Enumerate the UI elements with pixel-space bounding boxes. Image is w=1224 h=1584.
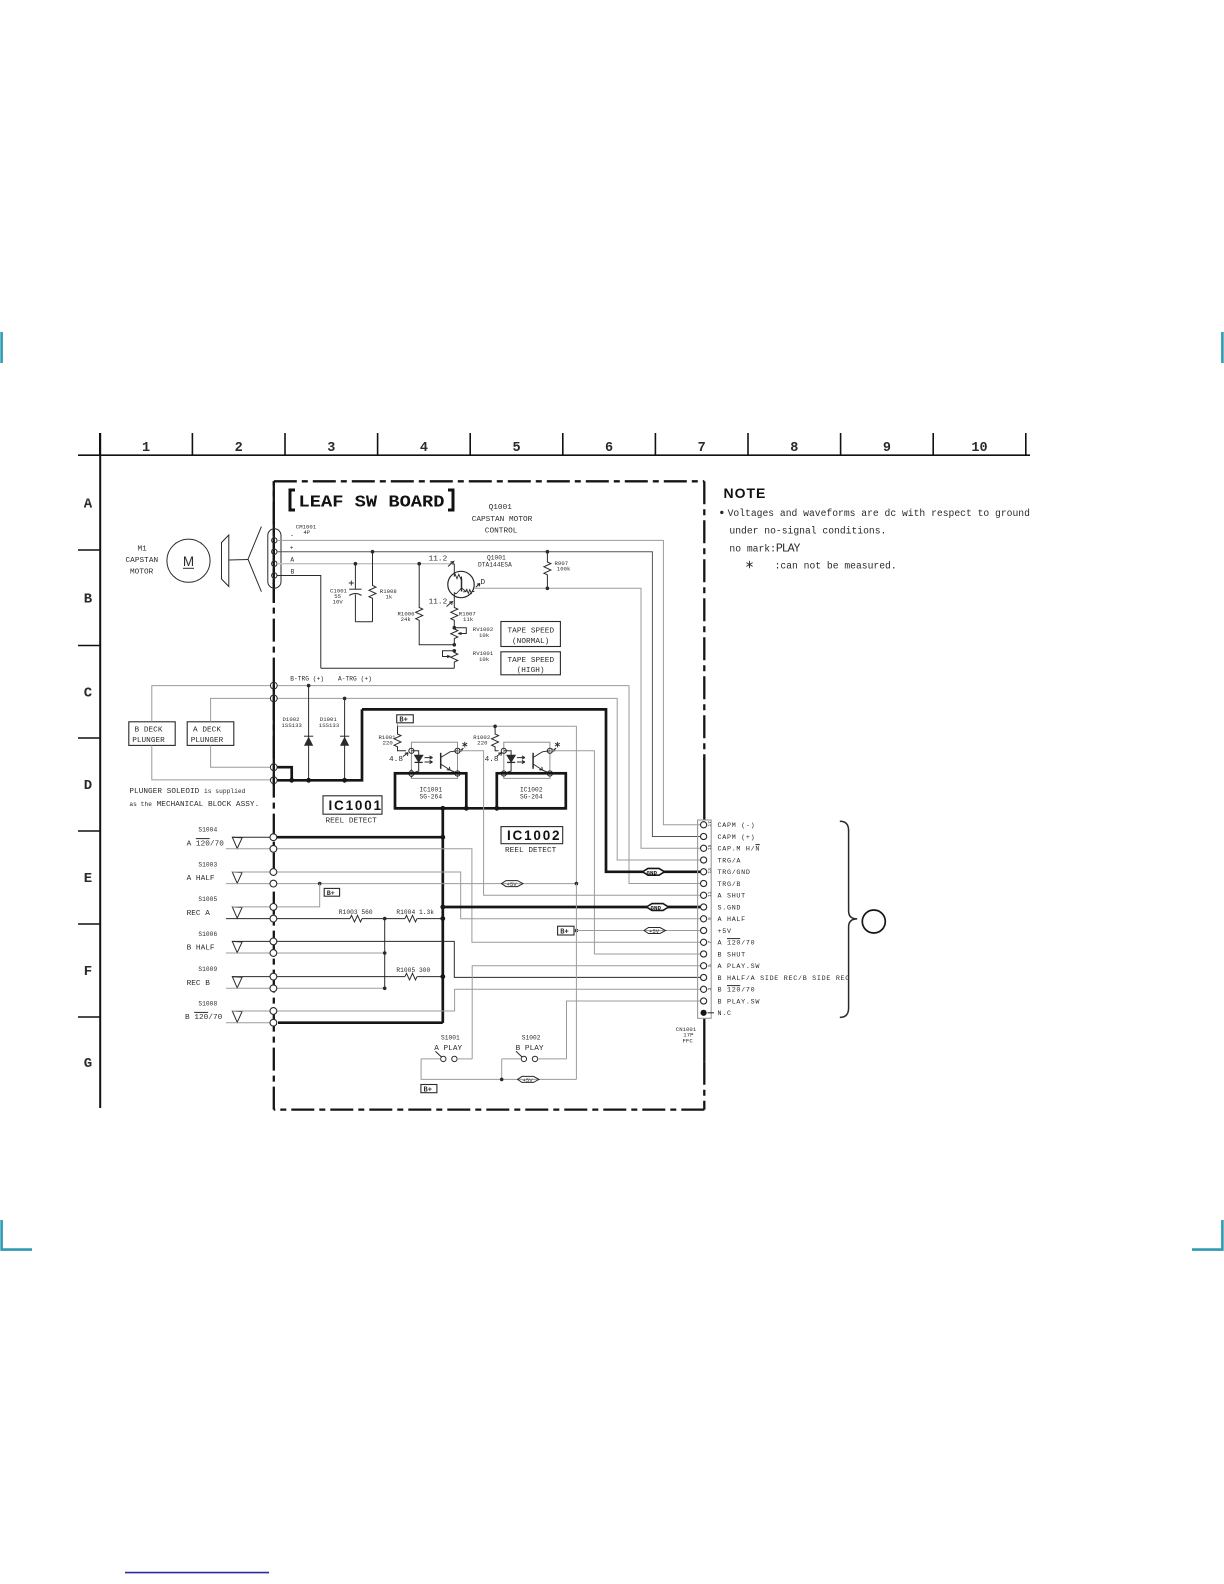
- CM1001 pin circles: [272, 538, 277, 579]
- board border solid segments: [274, 481, 705, 1061]
- svg-text:Voltages and waveforms are dc: Voltages and waveforms are dc with respe…: [728, 508, 1030, 519]
- svg-text:TAPE SPEED: TAPE SPEED: [508, 657, 555, 665]
- node gnd S.GND: [440, 905, 445, 910]
- border node circle A-TRG: [270, 695, 277, 702]
- wire A HALF to pin: [277, 872, 700, 919]
- node R1003/R1004: [383, 917, 387, 921]
- border node circle plunger A: [270, 764, 277, 771]
- svg-text:8: 8: [790, 441, 798, 456]
- diode D1001: [340, 698, 349, 780]
- IC1002 pin2 circle: [501, 771, 506, 776]
- IC1001 LED: [411, 751, 422, 774]
- resistor R1008: [369, 552, 376, 622]
- motor flange: [222, 535, 229, 587]
- node D1002 top: [307, 684, 311, 688]
- grid ruler line: [78, 454, 1030, 456]
- svg-text:R1004 1.3k: R1004 1.3k: [396, 909, 434, 916]
- svg-text:11: 11: [707, 891, 713, 897]
- svg-text:1k: 1k: [386, 594, 393, 601]
- wire B+ vertical lower: [575, 884, 577, 1080]
- wire ground bus: [278, 709, 363, 780]
- IC1001 pin1 circle: [409, 748, 414, 753]
- svg-text:S1008: S1008: [198, 1000, 217, 1007]
- svg-text:MOTOR: MOTOR: [130, 569, 154, 577]
- svg-text:S.GND: S.GND: [718, 904, 742, 912]
- CN1001 pin labels: [718, 822, 851, 1018]
- node bus D1002: [306, 778, 311, 783]
- wire S1006 bottom: [277, 952, 385, 954]
- node C1001 top: [354, 562, 358, 566]
- node link 953: [383, 951, 387, 955]
- svg-text:+5V: +5V: [649, 928, 660, 935]
- svg-text:M1: M1: [138, 546, 148, 554]
- svg-text:B 120/70: B 120/70: [718, 987, 756, 995]
- resistor R907: [544, 552, 551, 589]
- wire REC A / R1003 R1004: [277, 918, 443, 920]
- svg-text:SG-264: SG-264: [420, 793, 443, 800]
- trimmer RV1002: [451, 628, 467, 645]
- svg-text:10k: 10k: [479, 632, 490, 639]
- brace: [840, 821, 857, 1017]
- svg-text:B+: B+: [424, 1086, 432, 1094]
- node +5V pin tap: [575, 929, 579, 933]
- border node circle plunger B: [270, 777, 277, 784]
- wire S.GND row: [443, 906, 701, 909]
- svg-text:under no-signal conditions.: under no-signal conditions.: [729, 526, 886, 537]
- svg-text:A 120/70: A 120/70: [718, 940, 756, 948]
- node RV1002 top: [453, 626, 457, 630]
- svg-text:B+: B+: [327, 890, 335, 898]
- svg-text:CAPM (+): CAPM (+): [718, 834, 756, 842]
- svg-text:Q1001: Q1001: [487, 555, 506, 562]
- grid row letters: [84, 497, 93, 1073]
- arrow 4.8 IC1001: [403, 753, 408, 757]
- svg-text:B HALF/A SIDE REC/B SIDE REC: B HALF/A SIDE REC/B SIDE REC: [718, 975, 851, 983]
- grid ruler ticks: [100, 433, 1026, 455]
- note bullet: [720, 511, 723, 514]
- svg-text:100k: 100k: [557, 566, 571, 573]
- svg-text:+5V: +5V: [507, 881, 518, 888]
- svg-text:(NORMAL): (NORMAL): [512, 638, 549, 646]
- svg-text:-: -: [290, 532, 294, 539]
- wire S1005 to B+ tap: [277, 884, 320, 907]
- svg-text:+: +: [290, 544, 294, 551]
- svg-text:Q1001: Q1001: [489, 504, 513, 512]
- node gnd R1005: [440, 974, 445, 979]
- svg-text:CAP.M H/N: CAP.M H/N: [718, 846, 761, 854]
- wire A 120/70 to pin: [277, 849, 700, 943]
- IC1001 pin3 circle: [455, 771, 460, 776]
- svg-text:REEL DETECT: REEL DETECT: [505, 847, 557, 855]
- wire B+ rail: [398, 723, 577, 884]
- svg-text:2: 2: [235, 441, 243, 456]
- node IC bus drop: [440, 806, 445, 811]
- resistor R1003: [350, 915, 362, 922]
- footer rule: [125, 1572, 269, 1574]
- switch S1001: [421, 1051, 472, 1061]
- svg-text:A HALF: A HALF: [718, 916, 746, 924]
- CN1001 pin circles: [701, 822, 707, 1004]
- resistor R1006: [416, 564, 455, 645]
- svg-text:CONTROL: CONTROL: [485, 527, 518, 535]
- IC1001 case box: [395, 773, 466, 808]
- switch S1004: [226, 837, 270, 849]
- board border dash-dot outline: [274, 481, 705, 1109]
- wire S1009 bottom: [277, 987, 385, 989]
- svg-text:10k: 10k: [479, 656, 490, 663]
- pin label overlines: [727, 845, 760, 986]
- node R1002 top: [493, 725, 497, 729]
- wire B (motor phase): [277, 576, 321, 669]
- svg-text:10: 10: [971, 441, 987, 456]
- svg-text:N.C: N.C: [718, 1010, 732, 1018]
- svg-text:C: C: [84, 686, 93, 702]
- svg-text:B PLAY: B PLAY: [516, 1045, 544, 1053]
- connector CM1001: [268, 529, 281, 588]
- svg-text:DTA144ESA: DTA144ESA: [478, 562, 512, 569]
- svg-text:5: 5: [707, 964, 713, 967]
- svg-text:A 120/70: A 120/70: [187, 840, 225, 848]
- wire B plunger top: [152, 686, 271, 722]
- svg-text:S1004: S1004: [198, 827, 217, 834]
- border node circle B-TRG: [270, 682, 277, 689]
- svg-text:220: 220: [477, 740, 488, 747]
- registration mark bottom-right: [1192, 1220, 1222, 1250]
- node gnd R1004: [440, 916, 445, 921]
- resistor R1004: [405, 915, 417, 922]
- wire A PLAY.SW to pin13: [472, 966, 700, 1059]
- plug bracket: [248, 527, 261, 592]
- switch S1003: [226, 872, 270, 884]
- opto IC1001 body: [411, 742, 457, 778]
- svg-text:A PLAY: A PLAY: [434, 1045, 462, 1053]
- wire A plunger bottom: [211, 745, 271, 767]
- svg-text:S1009: S1009: [198, 966, 217, 973]
- wire CAPM(+): [277, 552, 700, 837]
- svg-text:B SHUT: B SHUT: [718, 951, 746, 959]
- switch S1008: [226, 1011, 270, 1023]
- switch S1006: [226, 941, 270, 953]
- svg-text:NOTE: NOTE: [724, 485, 767, 501]
- switch S1002: [502, 1051, 567, 1061]
- svg-text:(HIGH): (HIGH): [517, 667, 545, 675]
- border circles switches: [270, 834, 277, 1026]
- svg-text:B-TRG (+): B-TRG (+): [290, 676, 324, 683]
- wire S1004 common thick: [277, 836, 443, 839]
- node IC bus 496: [494, 806, 499, 811]
- svg-text:+5V: +5V: [718, 928, 732, 936]
- svg-text:IC1002: IC1002: [507, 828, 561, 843]
- svg-text:B DECK: B DECK: [135, 727, 163, 735]
- svg-text:S1005: S1005: [198, 896, 217, 903]
- node bottom rail: [500, 1078, 504, 1082]
- svg-text:A HALF: A HALF: [187, 875, 215, 883]
- svg-text:B: B: [84, 592, 93, 608]
- B+ box top: [397, 715, 414, 725]
- IC1002 pin4 circle: [547, 748, 552, 753]
- wire S1008 common thick: [278, 1021, 443, 1024]
- svg-text:B PLAY.SW: B PLAY.SW: [718, 998, 761, 1006]
- arrow 11.2 upper: [448, 562, 454, 567]
- IC1001 asterisk: [459, 742, 467, 752]
- B+ box bottom: [421, 1085, 437, 1095]
- wire B-TRG / TRG/B: [277, 686, 700, 884]
- node link 988: [383, 987, 387, 991]
- connector CN1001 body: [698, 820, 712, 1018]
- node B+ vertical join: [575, 882, 579, 886]
- svg-text:REC A: REC A: [187, 910, 211, 918]
- TAPE SPEED NORMAL box: [501, 622, 561, 647]
- svg-text:PLUNGER: PLUNGER: [132, 737, 165, 745]
- flag +5V rail: [502, 881, 524, 888]
- wire CAPM(-): [277, 540, 700, 824]
- wire IC ground bus: [395, 807, 566, 810]
- wire A (motor phase): [277, 563, 454, 565]
- svg-text:+5V: +5V: [523, 1077, 534, 1084]
- wire plunger ground riser: [278, 767, 292, 780]
- grid row ticks: [78, 550, 100, 1017]
- svg-text:SG-264: SG-264: [520, 793, 543, 800]
- svg-text:11.2: 11.2: [429, 599, 448, 607]
- svg-text:24k: 24k: [401, 616, 412, 623]
- wire TRG/GND run: [362, 709, 700, 871]
- grid column numbers: [142, 441, 988, 456]
- svg-text:7: 7: [707, 941, 713, 944]
- svg-text:4.8: 4.8: [389, 756, 403, 764]
- svg-text:220: 220: [383, 740, 394, 747]
- svg-text:TAPE SPEED: TAPE SPEED: [508, 628, 555, 636]
- svg-text:9: 9: [707, 917, 713, 920]
- svg-text:B+: B+: [560, 928, 568, 936]
- motor lead: [229, 559, 248, 562]
- svg-text:10V: 10V: [333, 599, 344, 606]
- trimmer RV1001: [443, 651, 458, 669]
- node R907 top: [546, 550, 550, 554]
- GND flag TRG/GND: [643, 868, 665, 876]
- svg-text:TRG/GND: TRG/GND: [718, 869, 751, 877]
- wire B 120/70 to pin15: [277, 989, 700, 1011]
- wire link 384: [384, 919, 386, 989]
- node R907 bottom: [546, 587, 550, 591]
- CN1001 pin17 N.C dot: [701, 1010, 707, 1016]
- svg-text:7: 7: [698, 441, 706, 456]
- svg-text:B 120/70: B 120/70: [185, 1014, 223, 1022]
- IC1002 asterisk: [552, 742, 560, 752]
- svg-text:4P: 4P: [303, 529, 310, 536]
- svg-text:B: B: [291, 568, 295, 575]
- wire B plunger bottom: [152, 745, 271, 780]
- svg-text:D: D: [84, 778, 92, 794]
- svg-text:TRG/A: TRG/A: [718, 857, 742, 865]
- title brackets: [290, 490, 295, 510]
- note asterisk: [746, 561, 752, 568]
- svg-text:E: E: [84, 871, 92, 887]
- wire Q1001 output / CAP.M H/N: [474, 588, 700, 848]
- reference circle: [862, 910, 885, 933]
- svg-text:S1002: S1002: [522, 1034, 541, 1041]
- TAPE SPEED HIGH box: [501, 652, 561, 675]
- arrow D: [476, 584, 480, 588]
- IC1002 LED: [504, 751, 515, 774]
- arrow 11.2 lower: [447, 602, 453, 607]
- svg-text:G: G: [84, 1056, 92, 1072]
- IC1002 pin1 circle: [501, 748, 506, 753]
- IC1002 pin3 circle: [547, 771, 552, 776]
- svg-text:IC1001: IC1001: [420, 786, 443, 793]
- svg-text:S1003: S1003: [198, 861, 217, 868]
- svg-text:A-TRG (+): A-TRG (+): [338, 676, 372, 683]
- svg-text:11.2: 11.2: [429, 555, 448, 563]
- svg-text:1SS133: 1SS133: [319, 722, 339, 729]
- IC1002 case box: [497, 773, 566, 808]
- resistor R1001: [394, 726, 406, 751]
- svg-text:A SHUT: A SHUT: [718, 893, 746, 901]
- GND flag S.GND: [647, 904, 669, 912]
- svg-text:PLUNGER SOLEOID is supplied: PLUNGER SOLEOID is supplied: [129, 788, 245, 796]
- IC1001 pin2 diamond: [408, 770, 415, 777]
- arrow 4.8 IC1002: [497, 753, 502, 757]
- B+ box right: [558, 926, 577, 936]
- svg-text:13: 13: [707, 868, 713, 874]
- node R1006 top: [417, 562, 421, 566]
- resistor R1007: [451, 604, 458, 628]
- wire A plunger top: [211, 698, 271, 721]
- svg-text:GND: GND: [647, 869, 658, 876]
- svg-text:3: 3: [707, 988, 713, 991]
- svg-text:1: 1: [142, 441, 150, 456]
- svg-text:S1001: S1001: [441, 1034, 460, 1041]
- svg-text:A: A: [84, 497, 93, 513]
- svg-text:4: 4: [272, 581, 275, 587]
- svg-text:11k: 11k: [463, 616, 474, 623]
- IC1001 light arrows: [425, 756, 433, 764]
- svg-text:IC1002: IC1002: [520, 786, 543, 793]
- wire +5V rail from S1003: [277, 883, 576, 885]
- node RV1001 top: [453, 649, 457, 653]
- node gnd S1004: [440, 835, 445, 840]
- node D1001 top: [343, 697, 347, 701]
- svg-text:A DECK: A DECK: [193, 727, 221, 735]
- B+ box mid: [324, 888, 339, 898]
- svg-text:6: 6: [605, 441, 613, 456]
- wire S1002 left drop: [501, 1059, 503, 1080]
- svg-text:CAPSTAN MOTOR: CAPSTAN MOTOR: [472, 516, 533, 524]
- svg-text:5: 5: [512, 441, 520, 456]
- svg-text:M: M: [183, 554, 194, 569]
- IC1001 pin4 circle: [455, 748, 460, 753]
- transistor Q1001: [448, 564, 475, 604]
- wire ground drop: [441, 808, 444, 1023]
- resistor R1005: [405, 973, 417, 980]
- svg-text:17: 17: [707, 821, 713, 827]
- registration mark top-right: [1221, 332, 1224, 363]
- svg-text:D: D: [481, 579, 486, 587]
- diode D1002: [304, 686, 313, 781]
- svg-text:LEAF SW BOARD: LEAF SW BOARD: [299, 494, 445, 513]
- svg-text:REEL DETECT: REEL DETECT: [326, 818, 378, 826]
- svg-text:9: 9: [883, 441, 891, 456]
- switch S1005: [226, 907, 270, 919]
- svg-text:A PLAY.SW: A PLAY.SW: [718, 963, 761, 971]
- C1001 polarity +: [349, 581, 354, 586]
- svg-text:as the MECHANICAL BLOCK ASSY.: as the MECHANICAL BLOCK ASSY.: [129, 801, 259, 809]
- svg-text:B HALF: B HALF: [187, 945, 215, 953]
- node R1008 top: [371, 550, 375, 554]
- node S1005 tap: [318, 882, 322, 886]
- wire B HALF to pin14: [277, 941, 700, 977]
- opto IC1002 body: [504, 742, 550, 778]
- svg-text:R1005 300: R1005 300: [396, 967, 430, 974]
- IC1002 name box: [501, 827, 563, 856]
- svg-text:no mark:PLAY: no mark:PLAY: [729, 542, 800, 555]
- IC1002 phototransistor: [533, 751, 550, 774]
- svg-text:B+: B+: [399, 717, 407, 725]
- node IC bus 466: [464, 806, 469, 811]
- node bus D1001: [342, 778, 347, 783]
- wire A-TRG / TRG/A: [277, 698, 700, 860]
- svg-text:PLUNGER: PLUNGER: [191, 737, 224, 745]
- switch S1009: [226, 977, 270, 989]
- motor M1: [167, 539, 210, 582]
- svg-text:CAPM (-): CAPM (-): [718, 822, 756, 830]
- node bus 291: [289, 778, 294, 783]
- svg-text:FFC: FFC: [683, 1037, 694, 1044]
- A deck plunger box: [187, 722, 234, 746]
- flag +5V pin: [644, 928, 666, 935]
- svg-text:4: 4: [420, 441, 428, 456]
- wire +5V to pin: [576, 930, 700, 932]
- CN1001 pin numbers: [707, 821, 713, 991]
- IC1001 phototransistor: [441, 751, 458, 774]
- wire REC B / R1005: [277, 976, 443, 978]
- wire B PLAY.SW to pin16: [567, 1001, 701, 1059]
- svg-text:4.8: 4.8: [485, 756, 499, 764]
- svg-text:F: F: [84, 964, 92, 980]
- svg-text:1SS133: 1SS133: [282, 722, 302, 729]
- IC1002 light arrows: [517, 756, 525, 764]
- wire +5V bottom rail: [421, 1059, 576, 1080]
- svg-text:IC1001: IC1001: [329, 798, 383, 813]
- registration mark bottom-left: [2, 1220, 32, 1250]
- grid left rail: [99, 433, 101, 1108]
- svg-text:REC B: REC B: [187, 980, 211, 988]
- svg-text:CAPSTAN: CAPSTAN: [126, 557, 159, 565]
- flag +5V bottom: [518, 1076, 540, 1083]
- svg-text:A: A: [290, 557, 294, 564]
- svg-text:S1006: S1006: [198, 931, 217, 938]
- registration mark top-left: [0, 332, 3, 363]
- B deck plunger box: [129, 722, 175, 746]
- svg-text::can not be measured.: :can not be measured.: [775, 560, 897, 571]
- wire B to RV rails: [321, 667, 455, 669]
- resistor R1002: [492, 726, 499, 751]
- svg-text:R1003 560: R1003 560: [339, 909, 373, 916]
- wire A SHUT: [458, 751, 701, 896]
- IC1001 name box: [323, 796, 383, 826]
- capacitor C1001: [349, 564, 372, 622]
- node RV junction: [453, 643, 457, 647]
- wire B SHUT: [550, 751, 700, 954]
- svg-text:15: 15: [707, 844, 713, 850]
- svg-text:3: 3: [327, 441, 335, 456]
- svg-text:TRG/B: TRG/B: [718, 881, 742, 889]
- svg-text:GND: GND: [651, 905, 662, 912]
